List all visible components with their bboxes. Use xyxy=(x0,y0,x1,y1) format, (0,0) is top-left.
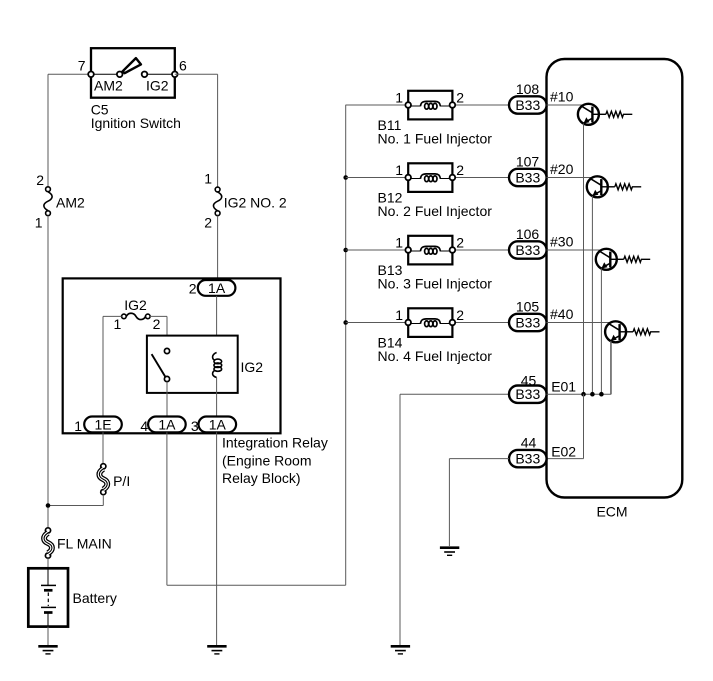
wire xyxy=(166,382,168,417)
svg-text:Integration Relay: Integration Relay xyxy=(222,435,328,451)
svg-text:1: 1 xyxy=(35,215,43,231)
relay switch xyxy=(152,348,170,381)
svg-text:AM2: AM2 xyxy=(94,78,123,94)
svg-text:1A: 1A xyxy=(158,416,176,432)
ground xyxy=(391,646,410,654)
svg-text:1: 1 xyxy=(74,418,82,434)
connector 45 B33 E01 xyxy=(509,373,576,403)
svg-text:B33: B33 xyxy=(515,386,540,402)
wire emitter xyxy=(600,269,602,395)
battery xyxy=(28,568,117,626)
transistor Q2 xyxy=(587,176,608,197)
wire xyxy=(216,432,218,646)
wire xyxy=(547,249,602,251)
injector B12 xyxy=(378,162,493,219)
fusible link P/I xyxy=(99,464,130,495)
svg-text:Ignition Switch: Ignition Switch xyxy=(91,115,181,131)
svg-text:1A: 1A xyxy=(209,416,227,432)
svg-text:Battery: Battery xyxy=(73,590,117,606)
svg-text:#40: #40 xyxy=(550,306,574,322)
svg-text:4: 4 xyxy=(140,418,148,434)
svg-text:IG2: IG2 xyxy=(241,359,264,375)
svg-text:No. 2 Fuel Injector: No. 2 Fuel Injector xyxy=(378,203,493,219)
svg-text:3: 3 xyxy=(191,418,199,434)
connector 2 1A xyxy=(189,280,236,297)
svg-text:7: 7 xyxy=(78,58,86,74)
svg-text:2: 2 xyxy=(189,281,197,297)
svg-text:6: 6 xyxy=(179,58,187,74)
ground xyxy=(207,646,226,654)
svg-text:108: 108 xyxy=(516,81,540,97)
wire xyxy=(449,459,509,546)
junction xyxy=(581,392,586,397)
svg-text:2: 2 xyxy=(204,215,212,231)
junction xyxy=(46,503,51,508)
svg-text:2: 2 xyxy=(36,172,44,188)
wire injector bus xyxy=(345,105,347,585)
svg-text:2: 2 xyxy=(456,162,464,178)
integration relay box xyxy=(63,278,328,486)
wire emitter xyxy=(583,124,585,395)
resistor R2 xyxy=(601,184,641,190)
wire xyxy=(346,322,509,324)
transistor Q4 xyxy=(605,321,626,342)
junction xyxy=(343,248,348,253)
svg-text:1: 1 xyxy=(395,307,403,323)
wire xyxy=(103,316,122,416)
svg-text:IG2 NO. 2: IG2 NO. 2 xyxy=(224,194,287,210)
svg-text:107: 107 xyxy=(516,154,540,170)
svg-text:105: 105 xyxy=(516,299,540,315)
svg-text:B33: B33 xyxy=(515,170,540,186)
wire xyxy=(547,177,593,179)
svg-text:45: 45 xyxy=(521,373,537,389)
svg-text:IG2: IG2 xyxy=(146,78,169,94)
ECM box xyxy=(547,59,683,520)
svg-text:B33: B33 xyxy=(515,451,540,467)
injector B13 xyxy=(378,235,493,292)
ground xyxy=(440,548,459,556)
wire xyxy=(175,74,218,187)
svg-text:B33: B33 xyxy=(515,242,540,258)
svg-text:1: 1 xyxy=(395,162,403,178)
svg-text:AM2: AM2 xyxy=(56,195,85,211)
svg-text:1: 1 xyxy=(395,90,403,106)
junction xyxy=(343,320,348,325)
svg-text:ECM: ECM xyxy=(596,504,627,520)
svg-text:Relay Block): Relay Block) xyxy=(222,470,301,486)
svg-text:#10: #10 xyxy=(550,89,574,105)
junction xyxy=(343,175,348,180)
svg-text:P/I: P/I xyxy=(113,473,130,489)
wire emitter xyxy=(610,341,612,394)
svg-text:2: 2 xyxy=(456,307,464,323)
relay coil IG2 xyxy=(213,353,264,378)
wire xyxy=(47,627,49,647)
transistor Q3 xyxy=(596,249,617,270)
svg-text:1: 1 xyxy=(204,171,212,187)
injector B14 xyxy=(378,307,493,364)
connector 44 B33 E02 xyxy=(509,435,576,468)
wire xyxy=(547,322,611,324)
svg-text:B33: B33 xyxy=(515,97,540,113)
svg-text:106: 106 xyxy=(516,226,540,242)
connector 106 B33 xyxy=(509,226,574,259)
wire emitter xyxy=(591,196,593,394)
wire xyxy=(547,394,584,458)
svg-text:(Engine Room: (Engine Room xyxy=(222,453,312,469)
wire xyxy=(150,316,167,348)
resistor R4 xyxy=(620,329,660,335)
wire xyxy=(102,432,104,464)
junction xyxy=(590,392,595,397)
wire xyxy=(48,74,91,186)
ground xyxy=(38,646,57,654)
fuse AM2 xyxy=(35,172,85,231)
resistor R3 xyxy=(610,256,650,262)
svg-text:#20: #20 xyxy=(550,161,574,177)
wire xyxy=(547,104,584,106)
wire xyxy=(47,558,49,568)
wire xyxy=(47,216,49,528)
svg-text:2: 2 xyxy=(153,316,161,332)
connector 4 1A xyxy=(140,416,185,434)
wire xyxy=(346,249,509,251)
svg-text:44: 44 xyxy=(521,435,537,451)
wire xyxy=(346,177,509,179)
wire xyxy=(217,216,219,280)
wire xyxy=(48,495,103,506)
fuse IG2 NO. 2 xyxy=(204,171,287,231)
relay inner box xyxy=(147,336,238,393)
svg-text:1: 1 xyxy=(395,235,403,251)
connector 107 B33 xyxy=(509,154,574,187)
connector 1 1E xyxy=(74,416,122,434)
svg-text:1E: 1E xyxy=(94,416,111,432)
wire xyxy=(346,104,509,106)
wire xyxy=(400,394,509,646)
wire xyxy=(167,432,346,585)
svg-text:2: 2 xyxy=(456,235,464,251)
svg-text:FL MAIN: FL MAIN xyxy=(57,535,112,551)
svg-text:B33: B33 xyxy=(515,315,540,331)
svg-text:2: 2 xyxy=(456,90,464,106)
fuse IG2 (relay) xyxy=(114,297,161,332)
svg-text:No. 3 Fuel Injector: No. 3 Fuel Injector xyxy=(378,275,493,291)
wire xyxy=(216,378,218,417)
svg-text:1: 1 xyxy=(114,316,122,332)
svg-text:No. 4 Fuel Injector: No. 4 Fuel Injector xyxy=(378,348,493,364)
fusible link FL MAIN xyxy=(44,528,112,558)
svg-text:No. 1 Fuel Injector: No. 1 Fuel Injector xyxy=(378,130,493,146)
junction xyxy=(599,392,604,397)
svg-text:1A: 1A xyxy=(208,280,226,296)
wire xyxy=(216,296,218,353)
transistor Q1 xyxy=(578,104,599,125)
svg-text:IG2: IG2 xyxy=(124,297,147,313)
wire xyxy=(547,342,612,395)
svg-text:E02: E02 xyxy=(551,443,576,459)
svg-text:E01: E01 xyxy=(551,378,576,394)
resistor R1 xyxy=(592,111,632,117)
ignition switch C5 xyxy=(78,48,187,131)
connector 3 1A xyxy=(191,416,236,434)
injector B11 xyxy=(378,90,493,147)
svg-text:#30: #30 xyxy=(550,234,574,250)
connector 108 B33 xyxy=(509,81,574,114)
connector 105 B33 xyxy=(509,299,574,332)
